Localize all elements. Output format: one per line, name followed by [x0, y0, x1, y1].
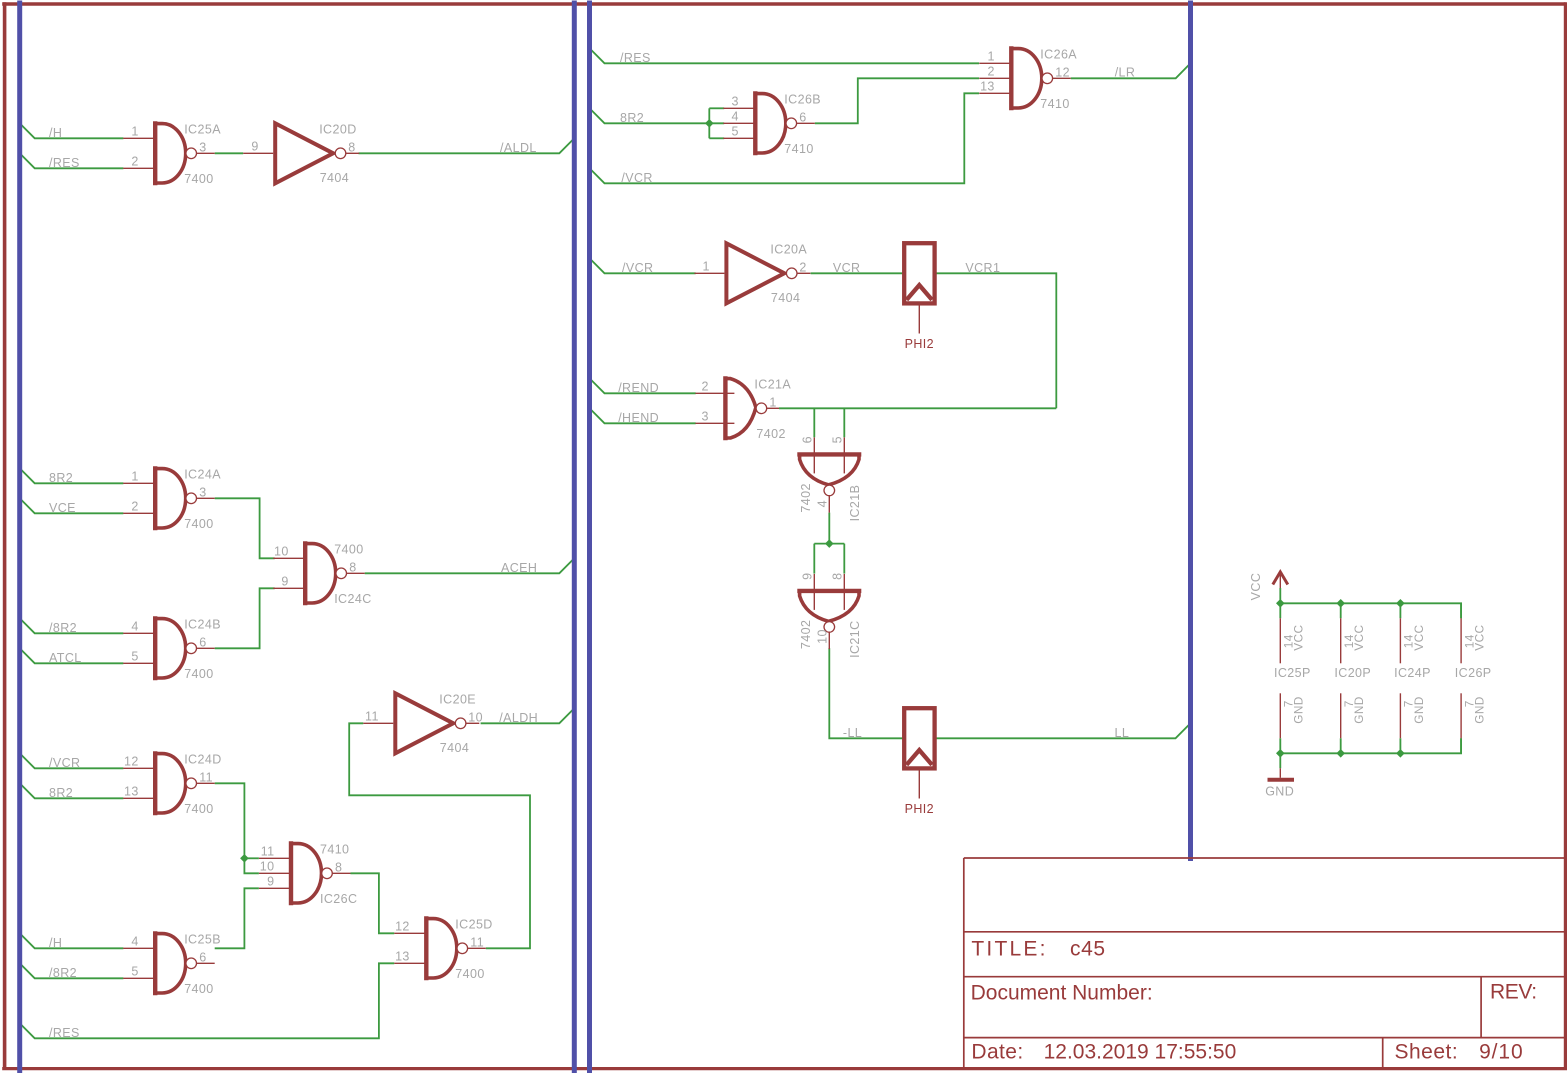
svg-text:IC26P: IC26P [1455, 666, 1492, 680]
svg-text:IC24D: IC24D [184, 752, 221, 766]
svg-text:8R2: 8R2 [49, 471, 73, 485]
svg-text:LL: LL [1115, 726, 1130, 740]
svg-text:1: 1 [769, 395, 776, 409]
svg-text:IC24B: IC24B [184, 617, 221, 631]
svg-text:4: 4 [131, 619, 138, 633]
svg-text:VCC: VCC [1473, 625, 1487, 651]
svg-text:13: 13 [980, 79, 995, 93]
svg-text:13: 13 [395, 949, 410, 963]
svg-text:10: 10 [816, 629, 830, 644]
svg-text:5: 5 [131, 964, 138, 978]
svg-text:/8R2: /8R2 [49, 966, 77, 980]
svg-text:Sheet:: Sheet: [1395, 1041, 1459, 1064]
svg-text:7400: 7400 [334, 542, 363, 556]
svg-text:2: 2 [987, 64, 994, 78]
svg-text:3: 3 [702, 409, 709, 423]
svg-text:7404: 7404 [320, 171, 349, 185]
svg-text:6: 6 [199, 635, 206, 649]
svg-text:/H: /H [49, 936, 62, 950]
svg-text:6: 6 [199, 950, 206, 964]
svg-text:7400: 7400 [184, 172, 213, 186]
svg-text:7402: 7402 [756, 427, 785, 441]
svg-text:VCR: VCR [833, 261, 861, 275]
svg-text:12: 12 [124, 754, 139, 768]
svg-text:IC24A: IC24A [184, 467, 221, 481]
svg-text:/RES: /RES [49, 156, 80, 170]
svg-text:/REND: /REND [618, 381, 659, 395]
svg-text:6: 6 [801, 436, 815, 443]
svg-text:IC21A: IC21A [754, 377, 791, 391]
svg-text:IC26A: IC26A [1040, 47, 1077, 61]
svg-text:11: 11 [365, 709, 379, 723]
svg-text:7404: 7404 [440, 741, 469, 755]
svg-text:GND: GND [1265, 784, 1294, 798]
svg-text:ATCL: ATCL [49, 651, 82, 665]
svg-text:4: 4 [816, 500, 830, 507]
svg-text:7404: 7404 [771, 291, 800, 305]
svg-text:11: 11 [261, 844, 275, 858]
svg-text:12.03.2019 17:55:50: 12.03.2019 17:55:50 [1044, 1041, 1237, 1064]
svg-text:3: 3 [199, 485, 206, 499]
svg-text:8R2: 8R2 [620, 111, 644, 125]
svg-text:VCE: VCE [49, 501, 76, 515]
svg-text:5: 5 [731, 124, 738, 138]
svg-text:13: 13 [124, 784, 139, 798]
svg-text:IC26B: IC26B [784, 92, 821, 106]
svg-text:7400: 7400 [184, 802, 213, 816]
svg-text:10: 10 [274, 544, 289, 558]
svg-text:GND: GND [1292, 696, 1306, 723]
svg-text:7410: 7410 [320, 842, 349, 856]
svg-text:9: 9 [251, 139, 258, 153]
svg-text:9: 9 [281, 574, 288, 588]
svg-text:8: 8 [348, 140, 355, 154]
svg-text:/8R2: /8R2 [49, 621, 77, 635]
svg-text:2: 2 [131, 154, 138, 168]
svg-text:IC25D: IC25D [455, 917, 492, 931]
svg-text:Document Number:: Document Number: [971, 982, 1153, 1005]
svg-text:IC25B: IC25B [184, 932, 221, 946]
svg-text:IC26C: IC26C [320, 892, 357, 906]
svg-text:2: 2 [799, 260, 806, 274]
svg-text:8: 8 [335, 860, 342, 874]
svg-text:VCC: VCC [1412, 625, 1426, 651]
svg-text:IC20A: IC20A [770, 242, 807, 256]
svg-text:10: 10 [468, 710, 483, 724]
svg-text:c45: c45 [1070, 937, 1106, 960]
svg-text:IC20P: IC20P [1334, 666, 1371, 680]
svg-text:7402: 7402 [799, 483, 813, 512]
svg-text:/VCR: /VCR [621, 171, 652, 185]
svg-text:VCC: VCC [1249, 573, 1263, 601]
svg-text:11: 11 [199, 770, 213, 784]
svg-text:VCR1: VCR1 [965, 261, 1000, 275]
svg-text:3: 3 [731, 94, 738, 108]
svg-text:/LR: /LR [1115, 65, 1136, 79]
svg-text:4: 4 [131, 934, 138, 948]
svg-text:8: 8 [349, 560, 356, 574]
svg-text:/H: /H [49, 126, 62, 140]
svg-text:GND: GND [1412, 696, 1426, 723]
svg-text:11: 11 [470, 935, 484, 949]
svg-text:8R2: 8R2 [49, 786, 73, 800]
svg-text:PHI2: PHI2 [905, 337, 934, 351]
svg-text:2: 2 [702, 379, 709, 393]
svg-text:2: 2 [131, 499, 138, 513]
svg-text:3: 3 [199, 140, 206, 154]
svg-text:IC24C: IC24C [334, 592, 371, 606]
svg-text:7400: 7400 [184, 667, 213, 681]
svg-text:/RES: /RES [620, 51, 651, 65]
svg-text:/HEND: /HEND [618, 411, 659, 425]
svg-text:IC25A: IC25A [184, 122, 221, 136]
svg-text:GND: GND [1352, 696, 1366, 723]
svg-text:TITLE:: TITLE: [971, 937, 1047, 960]
svg-text:/VCR: /VCR [49, 756, 80, 770]
svg-text:/ALDL: /ALDL [500, 141, 537, 155]
svg-text:5: 5 [131, 649, 138, 663]
svg-text:9: 9 [267, 874, 274, 888]
svg-text:PHI2: PHI2 [905, 802, 934, 816]
svg-text:REV:: REV: [1490, 981, 1537, 1004]
svg-text:12: 12 [395, 919, 410, 933]
svg-text:7400: 7400 [455, 967, 484, 981]
svg-text:5: 5 [831, 436, 845, 443]
svg-text:IC25P: IC25P [1274, 666, 1311, 680]
svg-text:IC20D: IC20D [319, 122, 356, 136]
svg-text:9/10: 9/10 [1479, 1041, 1523, 1064]
svg-text:-LL: -LL [843, 726, 862, 740]
svg-text:IC24P: IC24P [1394, 666, 1431, 680]
svg-text:/VCR: /VCR [622, 261, 653, 275]
svg-text:/ALDH: /ALDH [499, 711, 538, 725]
svg-text:IC21B: IC21B [848, 485, 862, 522]
svg-text:Date:: Date: [971, 1041, 1023, 1064]
svg-text:7410: 7410 [784, 142, 813, 156]
svg-text:7402: 7402 [799, 620, 813, 649]
svg-text:7400: 7400 [184, 982, 213, 996]
svg-text:VCC: VCC [1352, 625, 1366, 651]
svg-text:GND: GND [1473, 696, 1487, 723]
svg-text:1: 1 [987, 49, 994, 63]
svg-text:7410: 7410 [1040, 97, 1069, 111]
svg-text:1: 1 [131, 469, 138, 483]
svg-text:/RES: /RES [49, 1026, 80, 1040]
svg-text:4: 4 [731, 109, 738, 123]
svg-text:8: 8 [831, 573, 845, 580]
svg-text:1: 1 [703, 259, 710, 273]
svg-text:VCC: VCC [1292, 625, 1306, 651]
svg-text:ACEH: ACEH [501, 561, 537, 575]
svg-text:IC20E: IC20E [439, 692, 476, 706]
svg-text:9: 9 [801, 573, 815, 580]
svg-text:IC21C: IC21C [848, 620, 862, 657]
svg-text:12: 12 [1055, 65, 1070, 79]
svg-text:6: 6 [799, 110, 806, 124]
svg-text:7400: 7400 [184, 517, 213, 531]
svg-text:10: 10 [260, 859, 275, 873]
svg-text:1: 1 [131, 124, 138, 138]
